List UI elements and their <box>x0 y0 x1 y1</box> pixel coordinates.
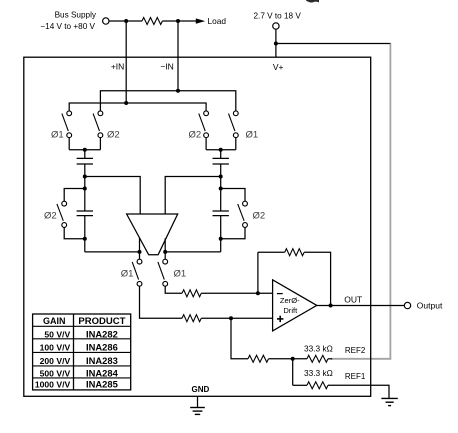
label: 2.7 V to 18 V <box>254 11 302 20</box>
svg-text:INA286: INA286 <box>86 341 118 352</box>
svg-text:Ø1: Ø1 <box>174 269 187 280</box>
svg-text:INA282: INA282 <box>86 328 118 339</box>
table header GAIN <box>43 316 66 326</box>
switch phase2 S2 <box>93 111 103 138</box>
load arrow <box>196 18 205 23</box>
ground GND <box>190 408 205 415</box>
label phase2 right <box>189 129 202 140</box>
node right hold tap <box>219 187 223 191</box>
pin label -IN <box>160 61 173 71</box>
svg-text:Drift: Drift <box>283 306 298 315</box>
wire V+ node to right rail <box>276 43 391 45</box>
resistor R5 (REF2 33.3k) <box>307 355 328 362</box>
svg-text:Ø2: Ø2 <box>44 210 57 221</box>
ground REF1 <box>381 398 397 405</box>
wire right hold branch top <box>221 189 245 202</box>
wire rail A (-IN to switches) <box>100 91 235 111</box>
label phase1 left <box>51 129 64 140</box>
switch phase1 S7 (left out) <box>132 259 142 286</box>
wire left hold branch bottom <box>64 227 85 238</box>
switch phase2 S3 <box>199 111 209 138</box>
wire right pair merge <box>206 149 236 151</box>
wire C2 bottom vertical <box>220 164 222 211</box>
switch phase1 S4 <box>229 111 239 138</box>
label phase1 out-right <box>174 269 187 280</box>
node bus +IN tap <box>124 19 128 23</box>
node right merge <box>219 148 223 152</box>
svg-text:ZerØ-: ZerØ- <box>280 296 300 305</box>
svg-text:INA283: INA283 <box>86 355 118 366</box>
node REF junction <box>291 357 295 361</box>
label: Load <box>208 16 227 26</box>
svg-text:Ø2: Ø2 <box>189 129 202 140</box>
wire rail B (+IN to switches) <box>69 103 206 111</box>
capacitor C4 (right hold) <box>213 211 229 216</box>
wire op-amp to Output <box>317 305 405 307</box>
node right feed tap <box>219 175 223 179</box>
label phase2 mid-right <box>253 210 266 221</box>
svg-text:2.7 V to 18 V: 2.7 V to 18 V <box>254 11 302 20</box>
table row INA286 <box>40 341 118 352</box>
shunt resistor <box>142 18 162 25</box>
svg-text:200 V/V: 200 V/V <box>40 356 71 366</box>
wire A1 left output tap <box>139 238 141 259</box>
wire left hold branch top <box>64 189 85 202</box>
switch phase2 S5 (left hold) <box>57 201 67 227</box>
node left output <box>138 250 142 254</box>
svg-text:Output: Output <box>417 300 443 310</box>
wire left feed <box>85 177 140 215</box>
svg-text:Ø2: Ø2 <box>253 210 266 221</box>
svg-text:Load: Load <box>208 16 227 26</box>
Output terminal <box>404 302 410 308</box>
resistor R2 (inverting input) <box>182 290 201 297</box>
resistor R6 (REF1 33.3k) <box>307 382 328 389</box>
svg-text:Ø1: Ø1 <box>51 129 64 140</box>
node left feed tap <box>83 175 87 179</box>
pin label REF2 <box>345 346 366 355</box>
capacitor C2 (right sampling) <box>213 158 229 164</box>
label ZerO-Drift line1 <box>280 296 300 305</box>
node bus -IN tap <box>176 19 180 23</box>
table row INA282 <box>44 328 117 339</box>
switch phase2 S6 (right hold) <box>238 201 248 227</box>
svg-text:GND: GND <box>192 385 210 394</box>
pin label +IN <box>111 61 124 71</box>
label phase1 right <box>246 129 259 140</box>
pin label OUT <box>344 295 362 305</box>
svg-text:Bus Supply: Bus Supply <box>55 11 97 20</box>
node V+ supply <box>274 42 278 46</box>
wire S1 down <box>68 138 70 150</box>
resistor R1 (noninverting input) <box>182 315 201 322</box>
svg-text:50 V/V: 50 V/V <box>44 329 70 339</box>
svg-text:33.3 kΩ: 33.3 kΩ <box>304 343 333 353</box>
wire -IN <box>177 21 179 91</box>
svg-text:−IN: −IN <box>160 61 173 71</box>
wire left pair merge <box>69 149 100 151</box>
capacitor C3 (left hold) <box>77 211 93 216</box>
svg-text:100 V/V: 100 V/V <box>40 342 71 352</box>
pin label V+ <box>273 62 284 72</box>
wire left lower horizontal <box>85 251 140 253</box>
label: -14 V to +80 V <box>40 22 95 31</box>
label: Bus Supply <box>55 11 97 20</box>
V+ supply terminal <box>273 23 279 29</box>
A2 plus sign <box>277 316 283 322</box>
node output feedback <box>329 304 333 308</box>
svg-text:−14 V to +80 V: −14 V to +80 V <box>40 22 95 31</box>
wire REF1 to ground <box>328 385 389 398</box>
wire right merge to C2 <box>220 150 222 159</box>
svg-text:1000 V/V: 1000 V/V <box>35 380 71 390</box>
wire R4 to REF junction <box>269 358 308 360</box>
bus supply terminal <box>103 18 109 24</box>
wire S8 to R2 <box>165 286 182 293</box>
svg-text:REF1: REF1 <box>345 372 366 381</box>
wire feedback top left <box>258 251 285 253</box>
svg-text:V+: V+ <box>273 62 284 72</box>
wire C1 bottom vertical <box>84 164 86 211</box>
svg-text:REF2: REF2 <box>345 346 366 355</box>
label ZerO-Drift line2 <box>283 306 298 315</box>
pin label REF1 <box>345 372 366 381</box>
wire feedback top right <box>304 252 330 305</box>
switch phase1 S1 <box>62 111 72 138</box>
table row INA284 <box>40 368 119 379</box>
node +IN on rail B <box>124 101 128 105</box>
gain table grid <box>33 314 131 390</box>
node left hold return <box>83 237 87 241</box>
capacitor C1 (left sampling) <box>77 158 93 164</box>
wire A1 right output tap <box>164 238 166 259</box>
wire shunt to load <box>162 20 196 22</box>
svg-text:Ø2: Ø2 <box>107 129 120 140</box>
wire REF junction down <box>292 359 294 386</box>
svg-text:33.3 kΩ: 33.3 kΩ <box>304 368 333 378</box>
node inverting input <box>256 291 260 295</box>
label: Output <box>417 300 443 310</box>
resistor R4 <box>248 355 269 362</box>
input amplifier A1 <box>127 214 178 255</box>
pin label GND <box>192 385 210 394</box>
wire feedback up <box>257 252 259 293</box>
svg-text:Ø1: Ø1 <box>246 129 259 140</box>
wire R1 to op-amp plus <box>201 317 272 319</box>
node right output <box>163 250 167 254</box>
node left merge <box>83 148 87 152</box>
label phase2 mid-left <box>44 210 57 221</box>
wire C3 bottom vertical <box>84 216 86 252</box>
node left hold tap <box>83 187 87 191</box>
svg-text:INA285: INA285 <box>86 379 118 390</box>
svg-text:INA284: INA284 <box>86 368 119 379</box>
table row INA285 <box>35 379 118 390</box>
wire R5 stub <box>328 358 332 360</box>
svg-text:+IN: +IN <box>111 61 124 71</box>
svg-text:OUT: OUT <box>344 295 362 305</box>
label phase2 left <box>107 129 120 140</box>
svg-text:500 V/V: 500 V/V <box>40 369 71 379</box>
wire S7 to R1 <box>140 286 183 318</box>
node right hold return <box>219 237 223 241</box>
wire left merge to C1 <box>84 150 86 159</box>
wire S4 down <box>235 138 237 150</box>
resistor R3 (feedback) <box>285 249 305 256</box>
wire GND pin <box>197 396 199 407</box>
label phase1 out-left <box>121 269 134 280</box>
wire S2 down <box>99 138 101 150</box>
svg-text:Ø1: Ø1 <box>121 269 134 280</box>
wire S3 down <box>205 138 207 150</box>
wire right feed <box>165 177 221 215</box>
wire plus node down <box>231 318 248 359</box>
IC boundary box <box>24 57 371 396</box>
grey wire V+ rail down to REF2 <box>331 44 390 359</box>
node noninverting input <box>229 316 233 320</box>
wire C4 bottom vertical <box>220 216 222 252</box>
wire V+ terminal to V+ pin <box>275 29 277 57</box>
svg-text:PRODUCT: PRODUCT <box>78 316 125 327</box>
wire to R6 <box>293 384 307 386</box>
A2 minus sign <box>277 293 283 295</box>
table header PRODUCT <box>78 316 125 327</box>
wire R2 to op-amp minus <box>201 292 272 294</box>
wire right lower horizontal <box>165 251 221 253</box>
artifact: cropped caption fragment <box>306 0 319 3</box>
label 33.3 kOhm REF1 <box>304 368 333 378</box>
label 33.3 kOhm REF2 <box>304 343 333 353</box>
wire +IN <box>125 21 127 103</box>
switch phase1 S8 (right out) <box>158 259 168 286</box>
wire bus supply to shunt <box>109 20 142 22</box>
node -IN on rail A <box>176 89 180 93</box>
op-amp A2 zero-drift <box>273 280 317 331</box>
wire right hold branch bottom <box>221 227 245 238</box>
svg-text:GAIN: GAIN <box>43 316 66 326</box>
table row INA283 <box>40 355 118 366</box>
